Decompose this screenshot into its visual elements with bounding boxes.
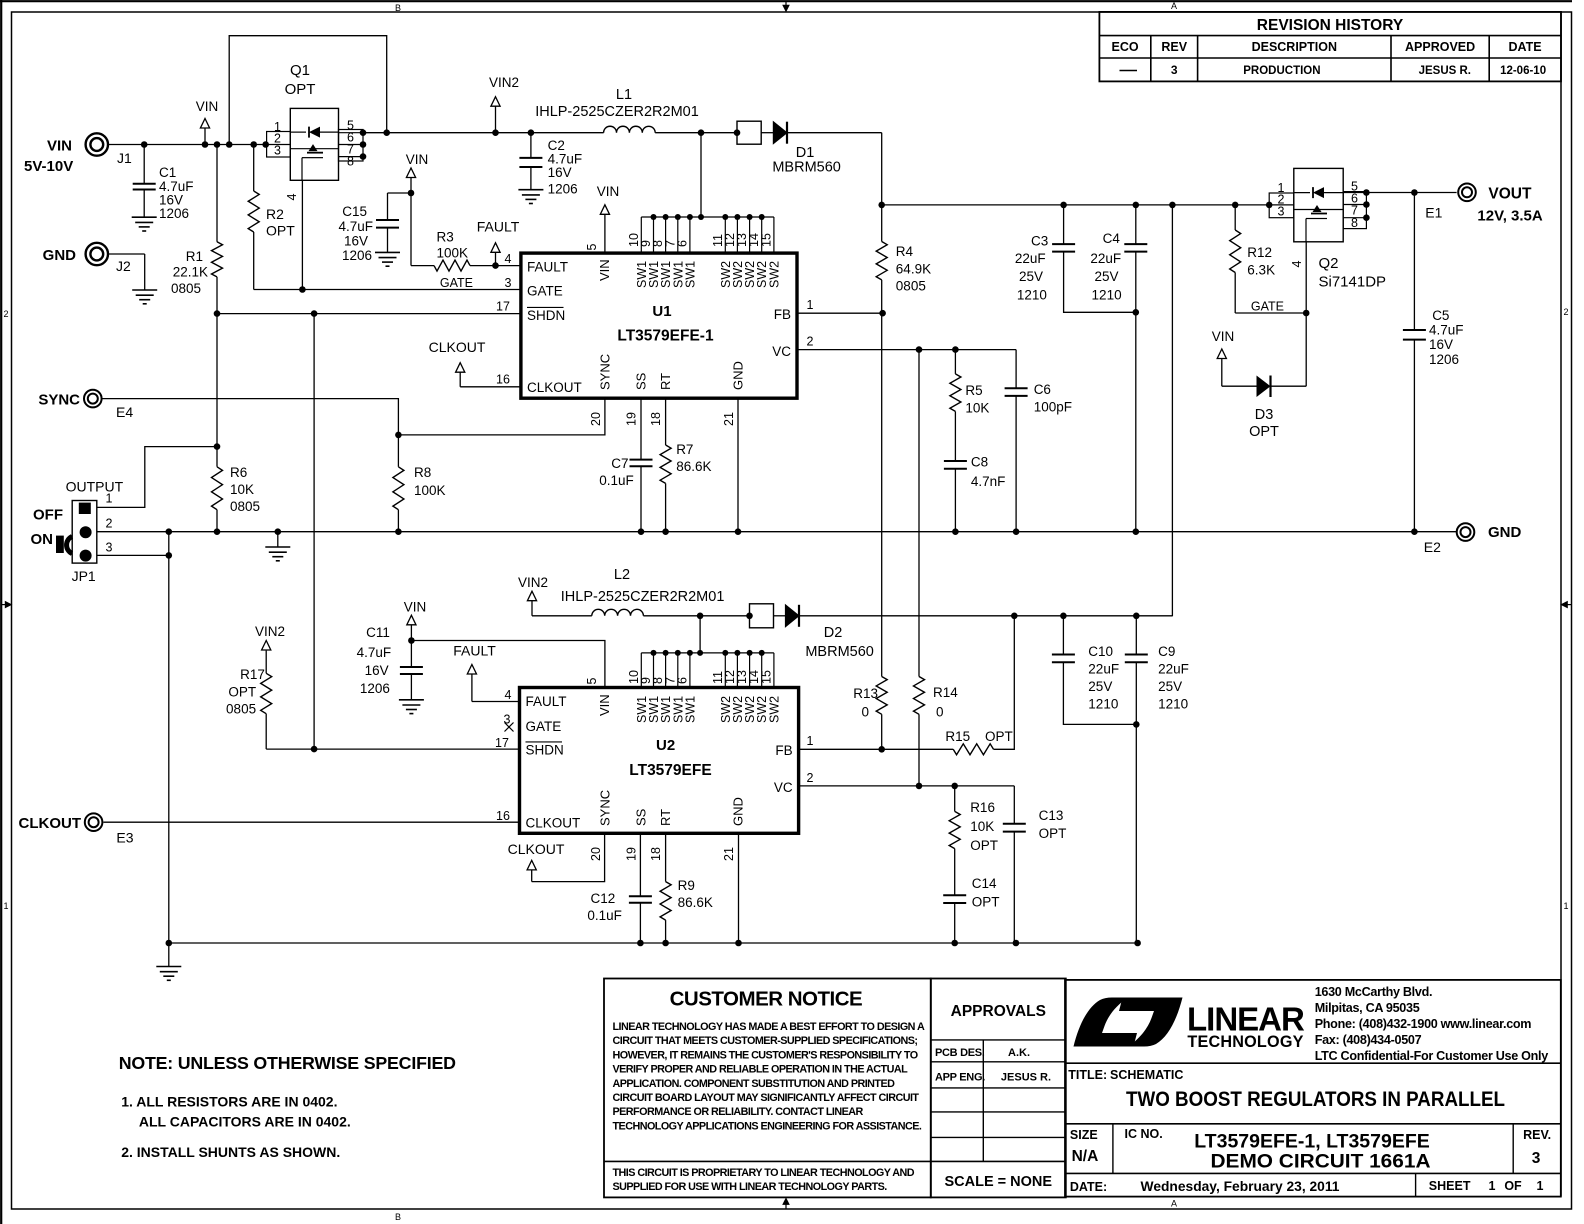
resistor R5 [954,350,956,374]
svg-text:D3: D3 [1255,407,1274,423]
svg-text:GND: GND [43,247,77,264]
U2 SW pins [640,653,642,688]
svg-text:J1: J1 [117,150,132,166]
svg-text:1206: 1206 [548,182,578,197]
capacitor C9 [1135,616,1137,655]
resistor R13 [876,677,887,715]
svg-text:LTC Confidential-For Customer: LTC Confidential-For Customer Use Only [1315,1049,1549,1063]
svg-text:A.K.: A.K. [1008,1047,1030,1059]
svg-text:0805: 0805 [226,702,256,717]
svg-text:R16: R16 [970,800,995,815]
svg-text:21: 21 [722,847,736,861]
svg-text:R3: R3 [437,230,454,245]
svg-text:E2: E2 [1424,539,1441,555]
svg-text:GND: GND [1488,524,1522,541]
svg-text:JP1: JP1 [72,568,96,584]
ground below C11 [399,699,424,701]
capacitor C1 [143,145,145,184]
svg-text:E1: E1 [1425,205,1442,221]
svg-text:C11: C11 [366,625,390,640]
svg-text:LT3579EFE: LT3579EFE [629,762,711,779]
svg-text:21: 21 [722,412,736,426]
svg-text:1: 1 [106,492,113,506]
svg-text:TECHNOLOGY: TECHNOLOGY [1187,1033,1303,1051]
svg-text:REV.: REV. [1523,1128,1551,1142]
svg-text:CLKOUT: CLKOUT [527,380,582,395]
svg-text:0: 0 [861,705,869,720]
wire riser to L2 node [699,616,701,653]
svg-text:10K: 10K [970,819,994,834]
svg-text:B: B [395,1212,401,1222]
svg-text:VIN: VIN [597,694,612,716]
svg-text:DEMO CIRCUIT 1661A: DEMO CIRCUIT 1661A [1211,1151,1431,1173]
node CLKOUT1 arrow [460,386,521,388]
svg-text:1: 1 [3,901,8,911]
svg-text:CLKOUT: CLKOUT [526,816,581,831]
ground symbol on bus [277,532,279,547]
svg-text:1630 McCarthy Blvd.: 1630 McCarthy Blvd. [1315,985,1433,999]
svg-text:1: 1 [807,734,814,748]
capacitor C13 OPT [1013,786,1015,824]
svg-text:2: 2 [807,771,814,785]
terminal J1 VIN [86,133,108,155]
svg-text:SW1: SW1 [683,261,697,288]
svg-text:OPT: OPT [1249,424,1279,440]
svg-text:CUSTOMER NOTICE: CUSTOMER NOTICE [670,988,863,1011]
svg-text:3: 3 [1532,1150,1541,1167]
wire GND bus lower [169,942,1138,944]
svg-text:10K: 10K [965,401,989,416]
svg-text:IC NO.: IC NO. [1125,1127,1163,1141]
svg-text:VIN: VIN [47,138,72,155]
terminal J2 GND [86,243,108,265]
svg-text:SS: SS [634,372,649,390]
svg-text:IHLP-2525CZER2R2M01: IHLP-2525CZER2R2M01 [561,589,725,605]
svg-text:APPROVED: APPROVED [1405,40,1475,54]
svg-text:1210: 1210 [1158,697,1188,712]
svg-text:C6: C6 [1034,382,1051,397]
svg-text:2: 2 [1563,307,1568,317]
svg-text:R14: R14 [933,685,958,700]
svg-text:R5: R5 [965,383,982,398]
wire E4 to R8 node [102,399,398,435]
svg-text:B: B [395,3,401,13]
wire VOUT to D2 rail tie [1171,205,1173,616]
svg-text:APP ENG.: APP ENG. [935,1072,985,1084]
svg-text:LT3579EFE-1: LT3579EFE-1 [617,328,714,345]
ground symbol lower bus [168,943,170,967]
op-amp U2 LT3579EFE body [520,688,799,834]
U1 pin FB [797,312,883,314]
wire L2 to D2 [643,615,749,617]
node VIN arrow above C11 [410,625,412,641]
transistor Q1 [290,108,338,180]
svg-text:4: 4 [285,193,299,200]
wire VOUT rail [882,204,1269,206]
wire Q2 gate net [1235,312,1306,314]
zone arrow right [1567,604,1571,606]
svg-text:15: 15 [759,233,773,247]
node FAULT2 arrow [471,674,473,702]
svg-text:GND: GND [731,797,746,826]
svg-text:R6: R6 [230,465,247,480]
svg-text:SW2: SW2 [767,696,781,723]
svg-text:12-06-10: 12-06-10 [1500,65,1546,77]
resistor R6 [216,314,218,467]
Q2 left pin bracket [1269,193,1294,218]
terminal E1 VOUT [1458,184,1476,202]
wire SHDN1 net [217,313,521,315]
node VIN arrow above C15 [408,190,415,197]
JP1 shunt ON [56,536,64,553]
svg-text:SIZE: SIZE [1070,1128,1098,1142]
U2 pin VC [799,785,1015,787]
svg-text:SHDN: SHDN [526,743,564,758]
svg-text:THIS CIRCUIT IS PROPRIETARY TO: THIS CIRCUIT IS PROPRIETARY TO LINEAR TE… [613,1167,915,1179]
resistor R15 OPT [953,744,993,755]
wire FB tie (R13 chain) [879,310,886,317]
wire GATE1 net [254,289,521,291]
svg-text:OPT: OPT [972,895,1000,910]
svg-text:C1: C1 [159,165,176,180]
diode D3 OPT [1221,359,1223,387]
svg-text:R17: R17 [240,667,265,682]
ground below C1 [132,216,157,218]
capacitor C15 [388,192,412,194]
svg-text:FAULT: FAULT [526,694,567,709]
svg-text:3: 3 [106,541,113,555]
svg-text:J2: J2 [116,258,131,274]
svg-text:OF: OF [1504,1179,1522,1193]
svg-text:SCHEMATIC: SCHEMATIC [1110,1068,1183,1082]
svg-text:19: 19 [625,847,639,861]
svg-text:L2: L2 [614,567,630,583]
svg-text:ECO: ECO [1112,40,1139,54]
inductor L2 [532,615,592,617]
svg-text:IHLP-2525CZER2R2M01: IHLP-2525CZER2R2M01 [535,104,699,120]
wire U2 GND pin 21 [738,833,740,943]
capacitor C6 [1015,350,1017,389]
svg-text:PCB DES.: PCB DES. [935,1047,985,1059]
svg-text:1206: 1206 [342,248,372,263]
resistor R2 [253,145,255,192]
svg-text:OFF: OFF [33,507,63,524]
svg-text:VIN2: VIN2 [255,624,285,639]
svg-text:25V: 25V [1019,269,1043,284]
svg-text:GATE: GATE [440,276,473,290]
wire J2 to ground [108,253,145,255]
svg-text:OPT: OPT [985,729,1013,744]
svg-text:100K: 100K [414,483,446,498]
resistor R4 [881,205,883,242]
svg-text:3: 3 [505,276,512,290]
svg-text:1210: 1210 [1017,288,1047,303]
svg-text:FAULT: FAULT [527,260,568,275]
svg-text:R9: R9 [678,878,695,893]
resistor R12 [1234,205,1236,230]
svg-text:15: 15 [759,670,773,684]
capacitor C7 on SS [640,398,642,459]
svg-text:4: 4 [1290,260,1304,267]
svg-text:SYNC: SYNC [38,392,80,409]
svg-text:1210: 1210 [1092,288,1122,303]
wire JP1 pin1 to SHDN divider [97,447,217,508]
svg-text:1. ALL RESISTORS ARE IN 0402.: 1. ALL RESISTORS ARE IN 0402. [121,1094,337,1110]
Q1 right pin bracket [339,130,364,162]
svg-text:TECHNOLOGY APPLICATIONS ENGINE: TECHNOLOGY APPLICATIONS ENGINEERING FOR … [613,1120,922,1132]
svg-text:4.7uF: 4.7uF [357,645,392,660]
wire VIN rail [108,144,267,146]
zone arrow left [1,604,5,606]
svg-text:16V: 16V [548,165,572,180]
svg-text:18: 18 [649,412,663,426]
svg-text:Milpitas, CA 95035: Milpitas, CA 95035 [1315,1001,1420,1015]
svg-text:VOUT: VOUT [1488,186,1532,203]
transistor Q2 [1294,168,1343,241]
svg-text:U1: U1 [652,303,671,320]
svg-text:1206: 1206 [159,206,189,221]
wire SHDN2 net [266,748,519,750]
capacitor C2 [530,133,532,158]
svg-text:0.1uF: 0.1uF [599,473,634,488]
svg-text:C3: C3 [1031,234,1048,249]
svg-text:VIN: VIN [1212,329,1235,344]
svg-text:OPT: OPT [285,81,316,98]
svg-text:20: 20 [589,412,603,426]
svg-text:PERFORMANCE OR RELIABILITY. C: PERFORMANCE OR RELIABILITY. CONTACT LINE… [613,1106,864,1118]
svg-text:Q2: Q2 [1319,255,1339,272]
svg-text:REVISION HISTORY: REVISION HISTORY [1257,17,1404,34]
svg-text:1: 1 [1563,901,1568,911]
svg-text:TWO BOOST REGULATORS IN PARALL: TWO BOOST REGULATORS IN PARALLEL [1126,1087,1505,1111]
zone arrow bottom [785,1204,787,1209]
svg-text:1206: 1206 [1429,352,1459,367]
Linear Technology logo [1074,998,1138,1047]
wire C11 to U2 VIN pin [411,641,605,688]
U1 pin VC [797,349,1016,351]
svg-text:N/A: N/A [1072,1148,1099,1165]
svg-text:VIN: VIN [196,99,219,114]
svg-text:VIN2: VIN2 [489,75,519,90]
diode D2 MBRM560 [750,604,774,628]
U2 pin GATE no-connect X [505,723,514,732]
sheet outer border [0,0,1572,2]
node VIN2 arrow on L2 line [531,601,533,616]
node VIN arrow at rail [204,128,206,145]
svg-text:C12: C12 [591,891,616,906]
svg-text:5: 5 [585,677,599,684]
wire D1 output down to VOUT rail [881,133,883,205]
svg-text:18: 18 [649,847,663,861]
terminal E2 GND [1457,523,1475,541]
svg-text:PRODUCTION: PRODUCTION [1243,65,1320,77]
svg-text:86.6K: 86.6K [678,895,713,910]
svg-text:2: 2 [807,335,814,349]
wire SHDN1 to SHDN2 vertical [313,314,315,749]
svg-text:SCALE = NONE: SCALE = NONE [945,1174,1053,1190]
svg-text:E4: E4 [116,404,133,420]
svg-text:4: 4 [505,252,512,266]
node VIN2 arrow above R17 [265,649,267,652]
svg-text:20: 20 [589,847,603,861]
svg-text:OUTPUT: OUTPUT [66,479,124,495]
svg-text:DESCRIPTION: DESCRIPTION [1252,40,1337,54]
capacitor C3 [1063,205,1065,244]
svg-text:SUPPLIED FOR USE WITH LINEAR T: SUPPLIED FOR USE WITH LINEAR TECHNOLOGY … [613,1181,888,1193]
svg-text:19: 19 [625,412,639,426]
svg-text:LINEAR TECHNOLOGY HAS MADE A B: LINEAR TECHNOLOGY HAS MADE A BEST EFFORT… [613,1021,925,1033]
svg-text:16V: 16V [1429,337,1453,352]
svg-text:22uF: 22uF [1090,251,1121,266]
svg-text:E3: E3 [116,830,133,846]
approvals box [931,979,1066,1198]
wire JP1 pin3 vertical [97,554,169,556]
wire SYNC1 net [398,398,605,435]
svg-text:3: 3 [274,144,281,158]
svg-text:C4: C4 [1103,231,1121,246]
inductor L1 [604,126,656,132]
svg-text:VIN: VIN [597,259,612,281]
capacitor C14 [943,894,966,896]
svg-text:1: 1 [807,298,814,312]
capacitor C5 [1413,193,1415,331]
svg-text:25V: 25V [1158,679,1182,694]
svg-text:C5: C5 [1432,308,1449,323]
svg-text:FB: FB [774,307,791,322]
svg-text:VIN2: VIN2 [518,575,548,590]
svg-text:SYNC: SYNC [598,790,613,826]
svg-text:1210: 1210 [1088,697,1118,712]
svg-text:VC: VC [774,780,793,795]
svg-text:0805: 0805 [230,499,260,514]
ground below J2 [132,289,157,291]
svg-text:R1: R1 [186,249,203,264]
svg-text:Wednesday, February 23, 2011: Wednesday, February 23, 2011 [1141,1179,1340,1194]
svg-text:R2: R2 [266,206,284,222]
svg-text:10K: 10K [230,482,254,497]
svg-text:3: 3 [1171,63,1178,77]
svg-text:VIN: VIN [406,152,429,167]
resistor R1 [216,145,218,242]
diode D1 MBRM560 [737,121,761,144]
svg-text:1: 1 [1489,1179,1496,1193]
svg-text:R7: R7 [676,442,693,457]
capacitor C4 [1135,205,1137,244]
node CLKOUT2 arrow [532,833,605,881]
revision history table [1099,12,1561,82]
resistor R16 [951,783,958,790]
svg-text:SW2: SW2 [767,261,781,288]
svg-text:6: 6 [675,677,689,684]
svg-text:R12: R12 [1247,245,1272,260]
svg-text:OPT: OPT [970,838,998,853]
svg-text:4: 4 [505,688,512,702]
svg-text:25V: 25V [1094,269,1118,284]
svg-text:C7: C7 [611,456,628,471]
node FAULT1 arrow [495,252,497,265]
svg-text:CIRCUIT BOARD LAYOUT MAY SIGNI: CIRCUIT BOARD LAYOUT MAY SIGNIFICANTLY A… [613,1092,920,1104]
svg-text:ALL CAPACITORS ARE IN 0402.: ALL CAPACITORS ARE IN 0402. [139,1114,351,1130]
svg-text:TITLE:: TITLE: [1068,1068,1107,1082]
svg-text:HOWEVER, IT REMAINS THE CUSTOM: HOWEVER, IT REMAINS THE CUSTOMER'S RESPO… [613,1049,918,1061]
svg-text:8: 8 [347,155,354,169]
svg-text:16V: 16V [344,234,368,249]
resistor R7 on RT [665,398,667,445]
resistor R17 [261,673,272,713]
svg-text:FB: FB [775,743,792,758]
svg-text:NOTE: UNLESS OTHERWISE SPECIFI: NOTE: UNLESS OTHERWISE SPECIFIED [119,1053,456,1073]
svg-text:CLKOUT: CLKOUT [508,841,565,857]
svg-text:ON: ON [31,531,54,548]
U1 pin VIN (5) [604,214,606,253]
wire Q2 output to E1 [1366,192,1456,194]
wire FAULT1 net / resistor R3 [410,193,412,266]
customer notice box [604,979,931,1198]
svg-text:FAULT: FAULT [453,643,496,659]
svg-text:16: 16 [496,809,510,823]
wire riser to L1 node [700,133,702,217]
resistor R9 on U2 RT [665,833,667,881]
svg-text:JESUS R.: JESUS R. [1419,65,1471,77]
svg-text:6.3K: 6.3K [1247,263,1275,278]
svg-text:DATE:: DATE: [1070,1180,1107,1194]
svg-text:C9: C9 [1158,644,1175,659]
svg-text:LT3579EFE-1, LT3579EFE: LT3579EFE-1, LT3579EFE [1194,1131,1430,1153]
svg-text:CLKOUT: CLKOUT [19,815,82,832]
wire SW1 output rail [363,132,604,134]
svg-text:CLKOUT: CLKOUT [429,339,486,355]
capacitor C11 [408,637,415,644]
svg-text:MBRM560: MBRM560 [805,644,874,660]
svg-text:5: 5 [585,243,599,250]
svg-text:Si7141DP: Si7141DP [1319,274,1387,291]
svg-text:R8: R8 [414,465,431,480]
svg-text:5V-10V: 5V-10V [24,158,73,175]
svg-text:22uF: 22uF [1015,251,1046,266]
svg-text:OPT: OPT [228,685,256,700]
svg-text:Fax: (408)434-0507: Fax: (408)434-0507 [1315,1033,1422,1047]
svg-text:VC: VC [772,344,791,359]
wire L1 to D1 [655,132,737,134]
sheet right column line [1560,12,1562,1197]
svg-text:VERIFY PROPER AND RELIABLE OPE: VERIFY PROPER AND RELIABLE OPERATION IN … [613,1064,909,1076]
capacitor C12 on U2 SS [639,833,641,896]
zone arrow top [785,1,787,5]
svg-text:OPT: OPT [266,223,295,239]
svg-text:GATE: GATE [527,284,563,299]
svg-text:CIRCUIT THAT MEETS CUSTOMER-SU: CIRCUIT THAT MEETS CUSTOMER-SUPPLIED SPE… [613,1035,918,1047]
svg-text:D2: D2 [824,625,843,641]
svg-text:FAULT: FAULT [477,219,520,235]
svg-text:VIN: VIN [597,184,620,199]
svg-text:0805: 0805 [896,279,926,294]
ground below C15 [375,251,400,253]
wire U1 GND pin 21 [737,398,739,532]
svg-text:2. INSTALL SHUNTS AS SHOWN.: 2. INSTALL SHUNTS AS SHOWN. [121,1144,340,1160]
Q1 left pin bracket [267,132,291,158]
svg-text:GATE: GATE [1251,300,1284,314]
svg-text:8: 8 [1351,216,1358,230]
svg-text:1206: 1206 [360,681,390,696]
capacitor C10 [1062,616,1064,655]
svg-text:L1: L1 [616,87,632,103]
svg-text:6: 6 [675,240,689,247]
svg-text:GATE: GATE [526,719,562,734]
jumper JP1 [72,501,97,564]
svg-text:22uF: 22uF [1158,662,1189,677]
svg-text:RT: RT [658,373,673,390]
title block box [1065,980,1561,1197]
